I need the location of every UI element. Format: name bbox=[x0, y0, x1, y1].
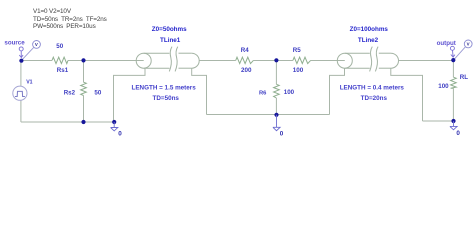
wire R5 to TLine2 A+ bbox=[311, 60, 345, 62]
svg-text:V: V bbox=[35, 42, 38, 47]
node source: off-page flag bbox=[19, 47, 23, 58]
wire junction to TLine1 A+ bbox=[84, 60, 144, 62]
wire R6 top lead bbox=[275, 61, 277, 85]
wire RL bottom lead bbox=[452, 88, 454, 121]
svg-text:R6: R6 bbox=[259, 90, 267, 96]
node R6 bottom ground junction bbox=[274, 113, 278, 117]
node Rs1/Rs2 junction bbox=[81, 58, 85, 62]
svg-text:TD=20ns: TD=20ns bbox=[361, 95, 388, 102]
voltage probe V at source bbox=[23, 41, 41, 60]
wire RL top lead bbox=[452, 61, 454, 78]
wire Rs1 to junction bbox=[68, 60, 84, 62]
ground 0 left bbox=[111, 122, 118, 131]
wire TLine1 B+ to R4 bbox=[199, 60, 236, 62]
svg-text:Z0=100ohms: Z0=100ohms bbox=[350, 26, 389, 33]
svg-text:0: 0 bbox=[280, 130, 284, 137]
transmission line TLine2 bbox=[337, 47, 398, 72]
svg-text:V1: V1 bbox=[26, 79, 32, 85]
svg-text:TD=50ns: TD=50ns bbox=[153, 95, 180, 102]
svg-text:source: source bbox=[4, 40, 25, 47]
node RL bottom ground junction bbox=[451, 119, 455, 123]
voltage source V1 bbox=[13, 79, 33, 100]
svg-text:RL: RL bbox=[460, 74, 468, 81]
wire TLine2 B+ to output node bbox=[399, 60, 453, 62]
svg-text:PW=500ns PER=10us: PW=500ns PER=10us bbox=[33, 23, 96, 30]
svg-text:R5: R5 bbox=[293, 47, 301, 54]
wire R4 to R5 through junction bbox=[253, 60, 293, 62]
pulse parameter text block bbox=[33, 8, 107, 30]
resistor Rs1 bbox=[52, 57, 68, 63]
voltage probe V at output bbox=[454, 40, 472, 59]
node TLine1 A- ground junction bbox=[112, 120, 116, 124]
svg-text:output: output bbox=[437, 40, 456, 47]
wire TLine1 B- stub bbox=[192, 68, 207, 114]
svg-text:LENGTH = 0.4 meters: LENGTH = 0.4 meters bbox=[340, 84, 405, 91]
svg-text:TLine2: TLine2 bbox=[358, 37, 379, 44]
node output: off-page flag bbox=[450, 46, 455, 57]
resistor R5 bbox=[293, 57, 311, 63]
wire TLine2 B- stub bbox=[391, 68, 423, 121]
svg-text:0: 0 bbox=[456, 130, 460, 137]
svg-text:100: 100 bbox=[293, 67, 304, 74]
svg-text:50: 50 bbox=[94, 89, 101, 96]
wire mid ground rail bbox=[207, 114, 330, 116]
svg-text:TLine1: TLine1 bbox=[160, 37, 181, 44]
wire V1 bottom lead bbox=[20, 100, 22, 122]
svg-text:Rs2: Rs2 bbox=[64, 89, 76, 96]
wire V1 top lead bbox=[20, 61, 22, 87]
node Rs2 bottom rail junction bbox=[81, 120, 85, 124]
wire TLine1 A- stub bbox=[114, 68, 146, 122]
node output junction bbox=[451, 58, 455, 62]
svg-text:50: 50 bbox=[56, 43, 63, 50]
wire Rs2 top lead bbox=[83, 61, 85, 83]
svg-text:100: 100 bbox=[438, 83, 449, 90]
wire right ground rail bbox=[423, 120, 454, 122]
resistor Rs2 bbox=[81, 82, 87, 95]
wire TLine2 A- stub bbox=[330, 68, 345, 114]
ground 0 middle bbox=[273, 115, 280, 131]
svg-text:R4: R4 bbox=[241, 47, 249, 54]
node source junction bbox=[19, 59, 23, 63]
svg-text:LENGTH = 1.5 meters: LENGTH = 1.5 meters bbox=[132, 84, 197, 91]
svg-text:200: 200 bbox=[241, 67, 252, 74]
resistor RL bbox=[451, 77, 457, 88]
node R4/R5/R6 junction bbox=[274, 58, 278, 62]
svg-text:V1=0 V2=10V: V1=0 V2=10V bbox=[33, 8, 72, 15]
svg-text:100: 100 bbox=[284, 89, 295, 96]
transmission line TLine1 bbox=[136, 47, 199, 72]
ground 0 right bbox=[450, 121, 457, 130]
wire left ground rail bbox=[21, 121, 114, 123]
svg-text:V: V bbox=[467, 42, 470, 47]
resistor R6 bbox=[274, 84, 280, 98]
svg-text:Z0=50ohms: Z0=50ohms bbox=[152, 26, 187, 33]
wire Rs2 bottom lead bbox=[83, 96, 85, 123]
svg-text:0: 0 bbox=[118, 131, 122, 138]
svg-text:TD=50ns TR=2ns TF=2ns: TD=50ns TR=2ns TF=2ns bbox=[33, 16, 107, 23]
resistor R4 bbox=[236, 57, 254, 63]
wire top main bbox=[21, 61, 454, 123]
wire R6 bottom lead bbox=[275, 98, 277, 115]
svg-text:Rs1: Rs1 bbox=[57, 67, 69, 74]
wire source node to Rs1 bbox=[21, 60, 52, 62]
